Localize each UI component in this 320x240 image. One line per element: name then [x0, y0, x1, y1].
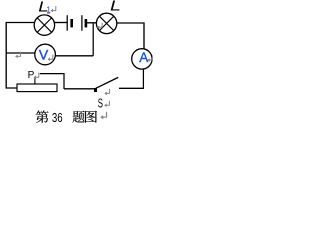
- svg-text:V: V: [39, 46, 49, 62]
- svg-text:L: L: [110, 0, 121, 15]
- svg-text:S: S: [98, 97, 103, 111]
- svg-text:36: 36: [52, 111, 63, 124]
- svg-text:P: P: [28, 70, 35, 81]
- svg-text:A: A: [139, 50, 148, 65]
